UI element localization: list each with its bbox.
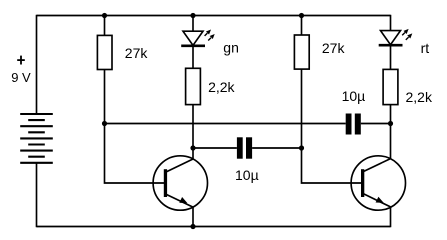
- wire branch1 junction to T1 base: [105, 124, 165, 184]
- LED gn: [181, 30, 215, 46]
- wire branch1 resistor to junction: [104, 70, 106, 124]
- svg-text:10µ: 10µ: [342, 88, 366, 104]
- wire LED gn to R 2.2k: [192, 46, 194, 69]
- node bottom rail emitter T1: [190, 224, 195, 229]
- wire cross coupling from branch1 junction to C2: [105, 123, 346, 125]
- transistor T2: [351, 156, 405, 210]
- wire bottom rail: [37, 226, 391, 228]
- svg-text:2,2k: 2,2k: [208, 79, 235, 95]
- wire T1 emitter to bottom rail: [192, 207, 194, 227]
- svg-text:10µ: 10µ: [235, 167, 259, 183]
- wire left collector node to C1: [193, 147, 237, 149]
- LED rt: [379, 29, 413, 45]
- node left collector junction: [190, 145, 195, 150]
- capacitor 10u left (C1): [237, 137, 252, 158]
- svg-text:27k: 27k: [322, 40, 346, 56]
- resistor 2.2k right: [383, 69, 398, 104]
- wire branch3 top: [301, 16, 303, 36]
- wire branch1 top: [104, 16, 106, 36]
- svg-text:gn: gn: [223, 39, 239, 55]
- node branch3 junction: [299, 145, 304, 150]
- svg-text:27k: 27k: [125, 45, 149, 61]
- resistor 2.2k left: [186, 68, 201, 104]
- wire branch2 resistor to collector node and into T1: [192, 105, 194, 159]
- wire C2 to right collector node: [361, 123, 391, 125]
- transistor T1: [153, 156, 207, 210]
- wire branch3 resistor through junction to T2 base: [302, 69, 362, 183]
- wire T2 emitter to bottom rail: [390, 207, 392, 227]
- wire left vertical from battery to bottom rail: [36, 163, 38, 227]
- wire branch4 rail corner to LED rt: [390, 15, 392, 31]
- node top rail branch2: [190, 13, 195, 18]
- svg-text:rt: rt: [421, 40, 430, 56]
- node branch1 junction: [102, 121, 107, 126]
- battery 9V: [20, 114, 53, 163]
- node right collector junction: [388, 121, 393, 126]
- node top rail branch3: [299, 13, 304, 18]
- label +: [17, 56, 25, 65]
- svg-text:9 V: 9 V: [11, 70, 31, 85]
- wire LED rt to R 2.2k right: [390, 45, 392, 69]
- resistor 27k left: [97, 35, 112, 69]
- node top rail branch1: [102, 13, 107, 18]
- wire left vertical from rail to battery: [36, 15, 38, 114]
- wire branch2 rail to LED: [192, 16, 194, 32]
- wire branch4 resistor to collector node and into T2: [390, 105, 392, 159]
- wire C1 to branch3 junction: [252, 147, 301, 149]
- wire top rail: [37, 15, 391, 17]
- resistor 27k right: [294, 35, 309, 69]
- svg-text:2,2k: 2,2k: [406, 89, 433, 105]
- capacitor 10u right (C2): [346, 114, 361, 135]
